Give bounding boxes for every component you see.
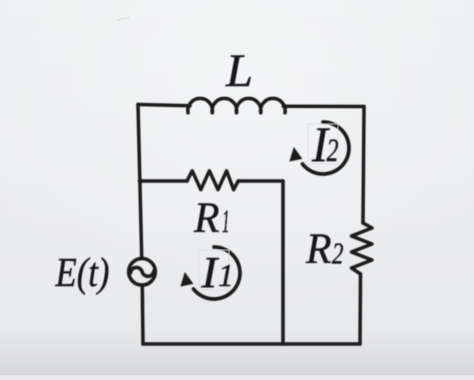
svg-text:I: I (200, 248, 219, 297)
wire left upper (138, 105, 142, 257)
faint equation-box artifact around I2 (308, 124, 338, 164)
mesh current loop I2 arrow (289, 122, 349, 174)
svg-text:E(t): E(t) (55, 249, 110, 295)
wire right upper (to R2) (363, 107, 364, 224)
wire top-left segment (138, 105, 190, 106)
svg-text:2: 2 (327, 133, 339, 169)
wire inner vertical (281, 181, 285, 344)
wire top-right segment (283, 105, 364, 109)
inductor L (188, 98, 285, 112)
wire right lower (358, 274, 362, 344)
wire middle branch right (238, 179, 283, 183)
svg-text:L: L (225, 45, 253, 97)
faint scratch mark top area (117, 17, 129, 21)
source E(t) circle (129, 259, 156, 286)
faint equation-box artifact around I1 (199, 250, 229, 290)
svg-text:1: 1 (218, 258, 234, 293)
resistor R1 (187, 171, 238, 190)
wire left lower (141, 287, 145, 344)
wire bottom (143, 342, 360, 346)
wire middle branch left (140, 179, 188, 183)
mesh current loop I1 arrow (180, 247, 240, 299)
svg-text:2: 2 (332, 236, 344, 271)
svg-text:R: R (193, 195, 219, 242)
sine wave inside source (130, 267, 154, 276)
svg-text:1: 1 (222, 204, 230, 240)
svg-text:R: R (305, 226, 331, 273)
resistor R2 (352, 223, 373, 274)
